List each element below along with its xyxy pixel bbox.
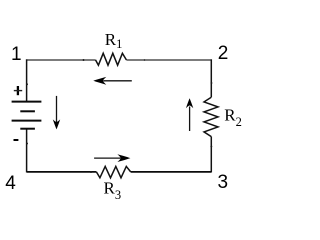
svg-text:1: 1 <box>11 44 22 65</box>
resistor R2 <box>204 97 218 136</box>
battery plate long top <box>12 101 42 103</box>
resistor R3 <box>96 166 130 177</box>
wire node2 down to R2 <box>210 59 212 97</box>
wire node4 up to battery minus <box>26 129 28 173</box>
wire junction dot right-lower <box>210 146 212 148</box>
wire junction dot bottom-left <box>90 171 92 173</box>
wire R2 to node3 (right bottom) <box>210 137 212 173</box>
wire R3 to node4 (bottom left) <box>27 171 97 173</box>
wire node1 down to battery plus <box>26 59 28 101</box>
battery plus label <box>14 86 22 95</box>
wire junction dot top-left <box>83 59 85 61</box>
svg-text:4: 4 <box>5 173 16 194</box>
resistor R1 <box>96 53 127 65</box>
wire node1 to R1 (top left) <box>27 59 96 61</box>
wire node3 to R3 (bottom right) <box>131 171 212 173</box>
wire junction dot right-upper <box>210 82 212 84</box>
wire junction dot left-lower <box>26 143 28 145</box>
battery plate short lower <box>20 128 35 130</box>
battery minus label <box>14 139 19 141</box>
current arrow left (pointing down, right of battery) <box>53 96 60 129</box>
wire R1 to node2 (top right) <box>126 59 211 61</box>
current arrow bottom (pointing right, above R3) <box>94 154 130 162</box>
battery plate long bottom <box>12 120 42 122</box>
svg-text:2: 2 <box>218 43 229 64</box>
current arrow right (pointing up, left of R2) <box>186 98 193 131</box>
wire junction dot top-right <box>144 59 146 61</box>
wire junction dot left-upper <box>26 83 28 85</box>
battery plate short upper <box>20 110 35 112</box>
svg-text:3: 3 <box>218 172 229 193</box>
current arrow top (pointing left, below R1) <box>93 77 132 85</box>
